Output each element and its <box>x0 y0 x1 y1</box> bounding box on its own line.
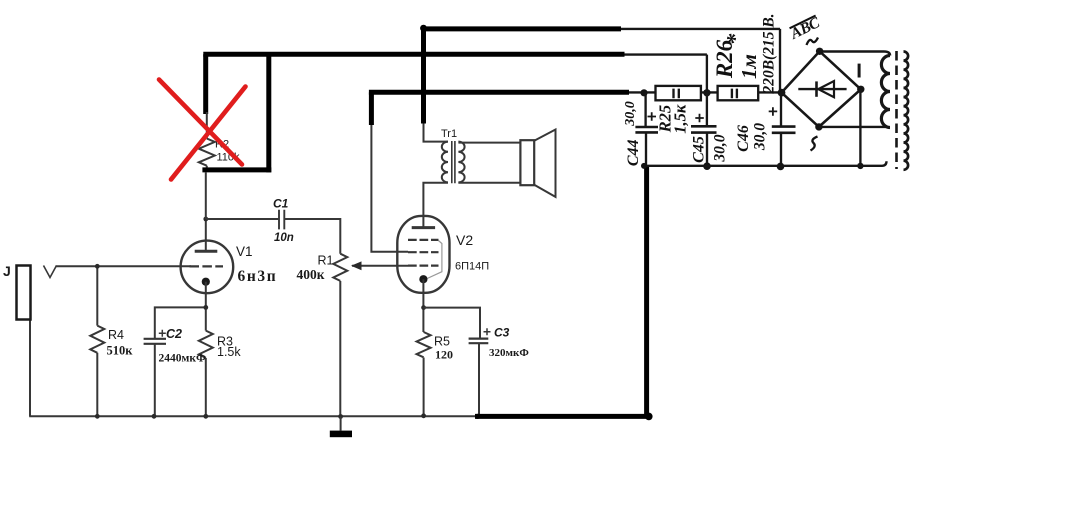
svg-text:С44: С44 <box>625 139 642 166</box>
node C46 rail junction <box>777 163 785 171</box>
wire PSU bottom rail <box>644 161 887 166</box>
resistor R2 <box>199 139 215 166</box>
resistor R4 <box>90 326 104 353</box>
capacitor C2 top lead <box>155 307 206 338</box>
wire Tr1 primary top lead <box>424 120 449 142</box>
transformer core dashed <box>895 51 898 169</box>
resistor R5 bottom lead <box>423 358 425 416</box>
wire R26 to N3 <box>758 91 781 93</box>
svg-text:510к: 510к <box>107 344 134 358</box>
wire V2 plate lead to Tr1 <box>423 183 448 228</box>
capacitor C44 <box>635 127 658 132</box>
node junction R4/rail <box>95 414 100 419</box>
transformer Tr1 primary <box>442 142 448 183</box>
capacitor C3 <box>469 339 489 344</box>
svg-text:R1: R1 <box>318 254 334 268</box>
wire V1 cathode lead <box>205 282 207 331</box>
resistor R5 <box>417 332 431 357</box>
resistor R2 lead bottom <box>206 166 207 219</box>
svg-text:R4: R4 <box>108 328 124 342</box>
svg-text:30,0: 30,0 <box>623 101 638 127</box>
resistor R3 <box>199 331 213 358</box>
resistor R26 box <box>718 86 759 100</box>
node dot thick rail end <box>645 413 653 421</box>
svg-text:C3: C3 <box>494 325 510 339</box>
wire V2 screen grid lead <box>371 122 408 252</box>
wire thick stub A down to Tr1 <box>421 26 426 124</box>
ground stem <box>340 417 342 431</box>
tube V1 grid dashes <box>190 265 224 267</box>
node junction cathode/C2/R3 <box>203 305 208 310</box>
wire bridge right corner down <box>859 89 861 166</box>
jack J <box>17 266 31 320</box>
wire thick line C (screen supply) <box>369 90 629 95</box>
capacitor C45 plus <box>695 114 704 123</box>
svg-text:2440мкФ: 2440мкФ <box>159 353 206 365</box>
svg-text:1.5k: 1.5k <box>217 345 241 359</box>
svg-text:30,0: 30,0 <box>751 123 768 151</box>
svg-text:1,5к: 1,5к <box>671 104 690 134</box>
wire bottom ground rail thin <box>29 415 476 417</box>
capacitor C44 bottom lead <box>645 132 647 165</box>
red X cross stroke 1 <box>159 80 246 180</box>
capacitor C1 <box>279 210 284 230</box>
svg-text:V1: V1 <box>236 244 253 259</box>
wire thick bottom rail <box>475 414 649 419</box>
wire thick line A (raw B+) <box>423 26 621 31</box>
node bridge minus rail junction <box>857 163 863 169</box>
node junction R1/rail <box>338 414 343 419</box>
transformer secondary winding <box>881 56 890 128</box>
wire jack to ground rail <box>29 320 31 417</box>
resistor R1 <box>333 254 347 281</box>
node junction R5/rail <box>421 413 426 418</box>
bridge rectifier diamond <box>782 51 861 127</box>
label ABC <box>787 14 823 43</box>
wire R1 wiper to V2 grid <box>352 265 408 267</box>
resistor R1 bottom lead <box>339 281 341 417</box>
transformer Tr1 secondary <box>458 142 464 183</box>
node R1 wiper arrowhead <box>351 261 362 270</box>
speaker body <box>520 140 534 185</box>
wire B thin to node R25/R26 <box>625 55 707 93</box>
node N3 bridge plus junction <box>778 89 786 97</box>
capacitor C44 plus <box>648 112 657 121</box>
svg-text:400к: 400к <box>297 267 325 282</box>
svg-text:R5: R5 <box>434 335 450 349</box>
wire R25 to N2 <box>701 91 718 93</box>
node rail left junction <box>641 163 647 169</box>
wire Tr1 secondary to speaker <box>458 143 520 183</box>
capacitor C44 top lead <box>644 93 646 128</box>
wire V2 cathode lead <box>422 279 424 332</box>
tube V1 plate <box>195 250 218 253</box>
svg-text:120: 120 <box>435 348 453 362</box>
resistor R2 lead top <box>206 112 208 139</box>
svg-text:1м: 1м <box>737 54 761 79</box>
diode lead inside bridge <box>798 88 846 90</box>
node C45 rail junction <box>703 162 711 170</box>
capacitor C45 bottom lead <box>706 133 708 166</box>
node bridge minus corner <box>857 86 864 93</box>
diode cathode bar <box>815 81 818 96</box>
resistor R25 box <box>656 86 701 100</box>
resistor R3 bottom lead <box>205 358 207 416</box>
wire bridge top to transformer <box>820 52 890 56</box>
resistor R26 inner marks <box>732 89 737 99</box>
tube V2 plate <box>412 226 435 229</box>
wire C1 right to R1 <box>284 219 340 254</box>
capacitor C3 bottom lead <box>478 343 480 416</box>
node N1 C44 junction <box>640 89 647 96</box>
capacitor C46 plus <box>769 107 778 116</box>
wire thick below R2 <box>202 167 271 172</box>
svg-text:С45: С45 <box>691 136 708 163</box>
node junction R3/rail <box>203 414 208 419</box>
capacitor C46 <box>772 127 796 133</box>
svg-text:С46: С46 <box>735 125 752 152</box>
svg-text:220В(215 В.: 220В(215 В. <box>761 13 778 94</box>
svg-text:*: * <box>723 33 748 45</box>
svg-text:320мкФ: 320мкФ <box>489 347 529 359</box>
node bridge top AC corner <box>816 48 823 55</box>
tube V2 internal g3-cathode link <box>425 241 442 280</box>
wire to C3 <box>424 308 480 339</box>
wire C1 left <box>206 218 279 220</box>
speaker horn <box>534 130 555 197</box>
tube V1 envelope <box>181 241 234 294</box>
capacitor C45 <box>691 126 717 132</box>
wire input horizontal <box>56 265 191 267</box>
node N2 junction <box>703 89 710 96</box>
wire C thin to R25 <box>629 91 656 93</box>
svg-text:6н3п: 6н3п <box>238 268 278 285</box>
svg-text:C1: C1 <box>273 197 289 211</box>
svg-text:Tr1: Tr1 <box>441 128 457 140</box>
label ~ top <box>807 38 819 46</box>
resistor R25 inner marks <box>674 89 679 99</box>
capacitor C45 top lead <box>706 93 708 127</box>
wire V1 plate lead <box>205 219 207 251</box>
wire thick stub C down <box>369 92 374 125</box>
capacitor C2 <box>144 339 166 344</box>
wire A thin to bridge <box>621 29 780 93</box>
red X cross stroke 2 <box>171 87 246 180</box>
wire thick R2 vertical <box>203 54 208 114</box>
node junction cathode/R5/C3 <box>421 305 426 310</box>
wire bridge bottom to transformer <box>819 126 886 128</box>
node junction C2/rail <box>152 414 157 419</box>
node junction C3/rail <box>475 414 480 419</box>
wire thick R2 loop right vertical <box>266 54 271 172</box>
ground <box>330 431 352 438</box>
wire thick line B (to R2) <box>203 52 624 57</box>
tube V2 cathode dot <box>419 275 427 283</box>
svg-text:C2: C2 <box>166 327 182 341</box>
svg-text:V2: V2 <box>456 232 473 248</box>
node junction input/R4 <box>95 264 100 269</box>
svg-text:30,0: 30,0 <box>712 134 729 162</box>
node bridge bottom AC corner <box>815 123 822 130</box>
label ~ bottom <box>811 137 818 151</box>
capacitor C3 plus sign <box>484 328 491 335</box>
diode triangle <box>818 81 834 97</box>
capacitor C2 plus sign <box>159 330 166 337</box>
tube V2 envelope <box>397 216 449 293</box>
svg-text:6П14П: 6П14П <box>455 261 489 273</box>
svg-text:10n: 10n <box>274 232 294 244</box>
capacitor C46 bottom lead <box>780 133 782 166</box>
svg-text:J: J <box>3 263 11 279</box>
node junction plate/C1/R2 <box>203 217 208 222</box>
transformer mains winding <box>904 52 909 170</box>
resistor R4 leads <box>96 266 98 416</box>
node V input symbol <box>44 266 57 278</box>
wire thick vertical to PSU minus <box>644 166 649 416</box>
tube V2 grid rows <box>408 240 439 266</box>
tube V1 cathode dot <box>202 278 210 286</box>
transformer Tr1 core <box>452 141 455 183</box>
capacitor C2 bottom lead <box>154 344 156 417</box>
capacitor C46 top lead <box>780 93 782 127</box>
node dot line A <box>420 25 427 32</box>
minus mark <box>858 64 861 78</box>
